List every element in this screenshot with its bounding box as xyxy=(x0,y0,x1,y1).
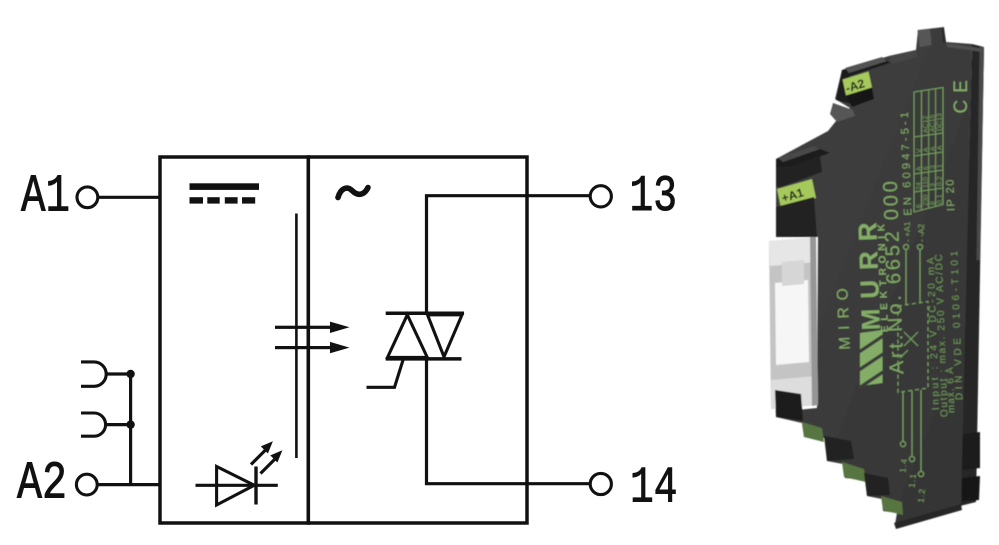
svg-text:6: 6 xyxy=(916,204,923,208)
murr logo block xyxy=(860,330,883,386)
triac bottom bar xyxy=(386,357,462,361)
svg-text:- +A1: - +A1 xyxy=(902,221,913,242)
svg-text:CE: CE xyxy=(951,73,972,113)
A2 terminal top bevel xyxy=(845,57,887,73)
junction dot upper xyxy=(126,370,134,378)
svg-text:IP 20: IP 20 xyxy=(944,178,957,211)
svg-text:1.2: 1.2 xyxy=(916,487,927,503)
svg-text:1.4: 1.4 xyxy=(898,457,909,473)
module DIN foot upper xyxy=(962,432,980,470)
triac left triangle xyxy=(388,315,428,358)
triac gate xyxy=(367,359,404,388)
clip bottom light xyxy=(771,376,818,409)
svg-text:MIRO: MIRO xyxy=(834,281,854,350)
wire fork lower to bus xyxy=(105,423,131,426)
terminal 14 circle xyxy=(590,473,611,494)
ratings table xyxy=(914,88,943,213)
polarity fork upper xyxy=(81,362,106,386)
svg-text:DC13: DC13 xyxy=(936,113,944,131)
terminal A1 circle xyxy=(77,187,98,208)
clip small notch top xyxy=(782,260,804,286)
clip top light xyxy=(769,237,816,266)
LED light arrow 1 xyxy=(251,441,273,464)
murr logo cuts xyxy=(859,336,883,388)
optocoupler box xyxy=(160,157,527,523)
bottom green strip 3 xyxy=(881,496,903,515)
divider wall xyxy=(306,155,310,525)
step wedge highlight xyxy=(830,103,855,122)
bottom edge face xyxy=(894,504,962,529)
A1 green label xyxy=(777,179,816,208)
coupling arrow upper xyxy=(275,326,331,329)
clip inner white xyxy=(775,280,809,365)
LED cathode bar xyxy=(254,467,257,505)
svg-text:1.1: 1.1 xyxy=(907,472,918,488)
bus wire xyxy=(129,373,132,485)
dark below A1 xyxy=(776,197,817,237)
svg-text:1: 1 xyxy=(937,164,944,168)
printed schematic on module xyxy=(898,245,928,477)
wire fork upper to bus xyxy=(105,372,131,375)
svg-text:14: 14 xyxy=(630,461,678,518)
wire A2 to box xyxy=(97,483,159,486)
tab right shade xyxy=(942,28,947,44)
svg-text:0.2: 0.2 xyxy=(937,176,944,186)
svg-text:230: 230 xyxy=(923,194,930,206)
polarity fork lower xyxy=(81,413,106,436)
wire triac to 13 xyxy=(427,196,591,314)
step below clip xyxy=(775,390,803,421)
clip side shadow xyxy=(810,237,818,406)
A2 block shadow below label xyxy=(846,88,874,108)
svg-text:A: A xyxy=(937,145,944,150)
svg-text:A2: A2 xyxy=(17,454,67,514)
triac top bar xyxy=(386,311,464,315)
A2 terminal block xyxy=(836,58,890,104)
A1 terminal top bevel xyxy=(778,146,820,162)
wire triac to 14 xyxy=(427,358,591,484)
isolation barrier line xyxy=(295,214,298,459)
top bevel highlight xyxy=(918,29,932,47)
product photo: relay module xyxy=(769,27,984,529)
white clip body xyxy=(769,237,818,409)
table header texts xyxy=(916,113,944,208)
triac right triangle xyxy=(428,315,463,357)
terminal A2 circle xyxy=(76,474,97,495)
DC symbol solid bar xyxy=(190,183,260,190)
svg-text:13: 13 xyxy=(630,169,678,226)
bottom green strip 2 xyxy=(842,462,866,482)
wire A1 to box xyxy=(98,196,159,199)
svg-text:0.1: 0.1 xyxy=(937,194,944,204)
svg-text:- -A2: - -A2 xyxy=(916,223,927,242)
svg-text:A1: A1 xyxy=(21,167,70,227)
coupling arrow lower xyxy=(275,346,331,349)
svg-text:110: 110 xyxy=(923,177,930,189)
bottom step 2 dark xyxy=(824,436,854,461)
module side face right xyxy=(960,44,984,506)
top edge slope face xyxy=(889,50,918,64)
LED light arrow 2 xyxy=(261,450,283,473)
dark between A1 top and green xyxy=(776,156,822,187)
bottom green strip 1 xyxy=(802,422,824,442)
module DIN foot lower xyxy=(962,476,980,501)
LED line xyxy=(196,484,278,487)
bottom step 3 dark xyxy=(864,473,890,496)
module front face xyxy=(776,27,972,524)
DC symbol dashes xyxy=(190,197,204,203)
A2 green label xyxy=(843,72,873,96)
A1 terminal block xyxy=(776,146,830,168)
top edge thin bevel right of tab xyxy=(947,43,983,52)
AC symbol tilde xyxy=(338,188,368,198)
junction dot lower xyxy=(126,420,134,428)
terminal 13 circle xyxy=(590,186,611,207)
LED triangle xyxy=(217,467,255,506)
